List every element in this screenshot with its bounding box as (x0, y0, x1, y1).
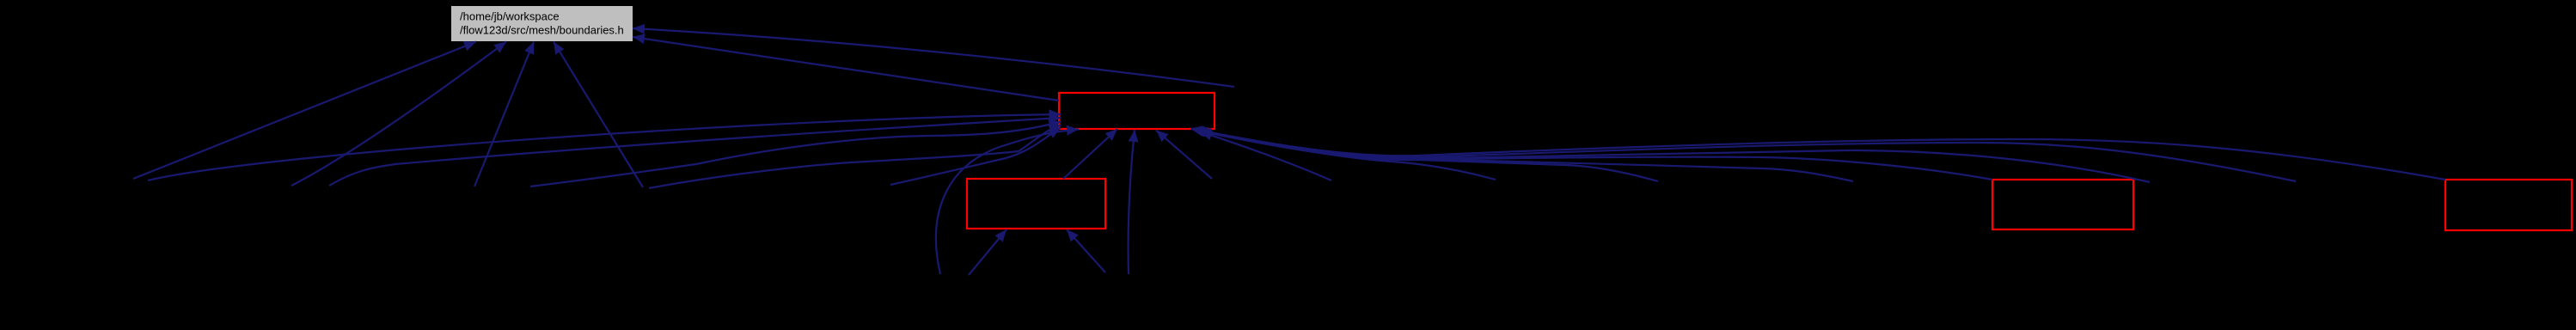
edge C0 curved around R2 to R1 bottom (936, 130, 1079, 275)
edge V vertical to R1 bottom (1129, 130, 1135, 274)
node R1 (central red box) (1059, 93, 1215, 129)
svg-text:/flow123d/src/mesh/boundaries.: /flow123d/src/mesh/boundaries.h (460, 24, 624, 37)
edge B5 bundle to R1 corner (from R3) (1194, 130, 1992, 180)
edge e5 R1 to gray box (633, 37, 1059, 101)
edge R2b to R2 bottom (1067, 229, 1105, 272)
edge B7 bundle to R1 corner (1191, 129, 2296, 181)
edge B8 bundle to R1 corner (from R4) (1190, 129, 2445, 180)
edge T3 to R1 bottom (1156, 131, 1212, 180)
edge S4 to R1 left (649, 125, 1062, 189)
edge S3 to R1 left (530, 122, 1062, 187)
edge e1 to gray box (133, 42, 476, 180)
edge e6 to gray box (633, 28, 1234, 87)
node R4 (far-right red box) (2445, 180, 2572, 230)
edge e3 to gray box (474, 42, 534, 187)
svg-text:/home/jb/workspace: /home/jb/workspace (460, 10, 560, 23)
edge e4 to gray box (554, 42, 643, 188)
edge S2 to R1 left (329, 118, 1062, 186)
node R2 (lower red box) (967, 179, 1105, 229)
node R3 (right red box) (1992, 180, 2133, 229)
edge B6 bundle to R1 corner (1192, 129, 2150, 182)
edge S5 to R1 left (890, 128, 1061, 186)
edge T1 R2 to R1 bottom (1063, 129, 1117, 179)
edge B3 bundle to R1 corner (1197, 131, 1658, 181)
node boundaries.h (gray box) (451, 6, 633, 41)
edge S1 to R1 left (148, 114, 1062, 180)
edge B2 bundle to R1 corner (1199, 131, 1496, 180)
edge R2a to R2 bottom (969, 229, 1007, 275)
edge e2 to gray box (291, 42, 506, 186)
edge B4 bundle to R1 corner (1196, 130, 1853, 181)
edge B1 bundle to R1 corner (1200, 131, 1331, 180)
